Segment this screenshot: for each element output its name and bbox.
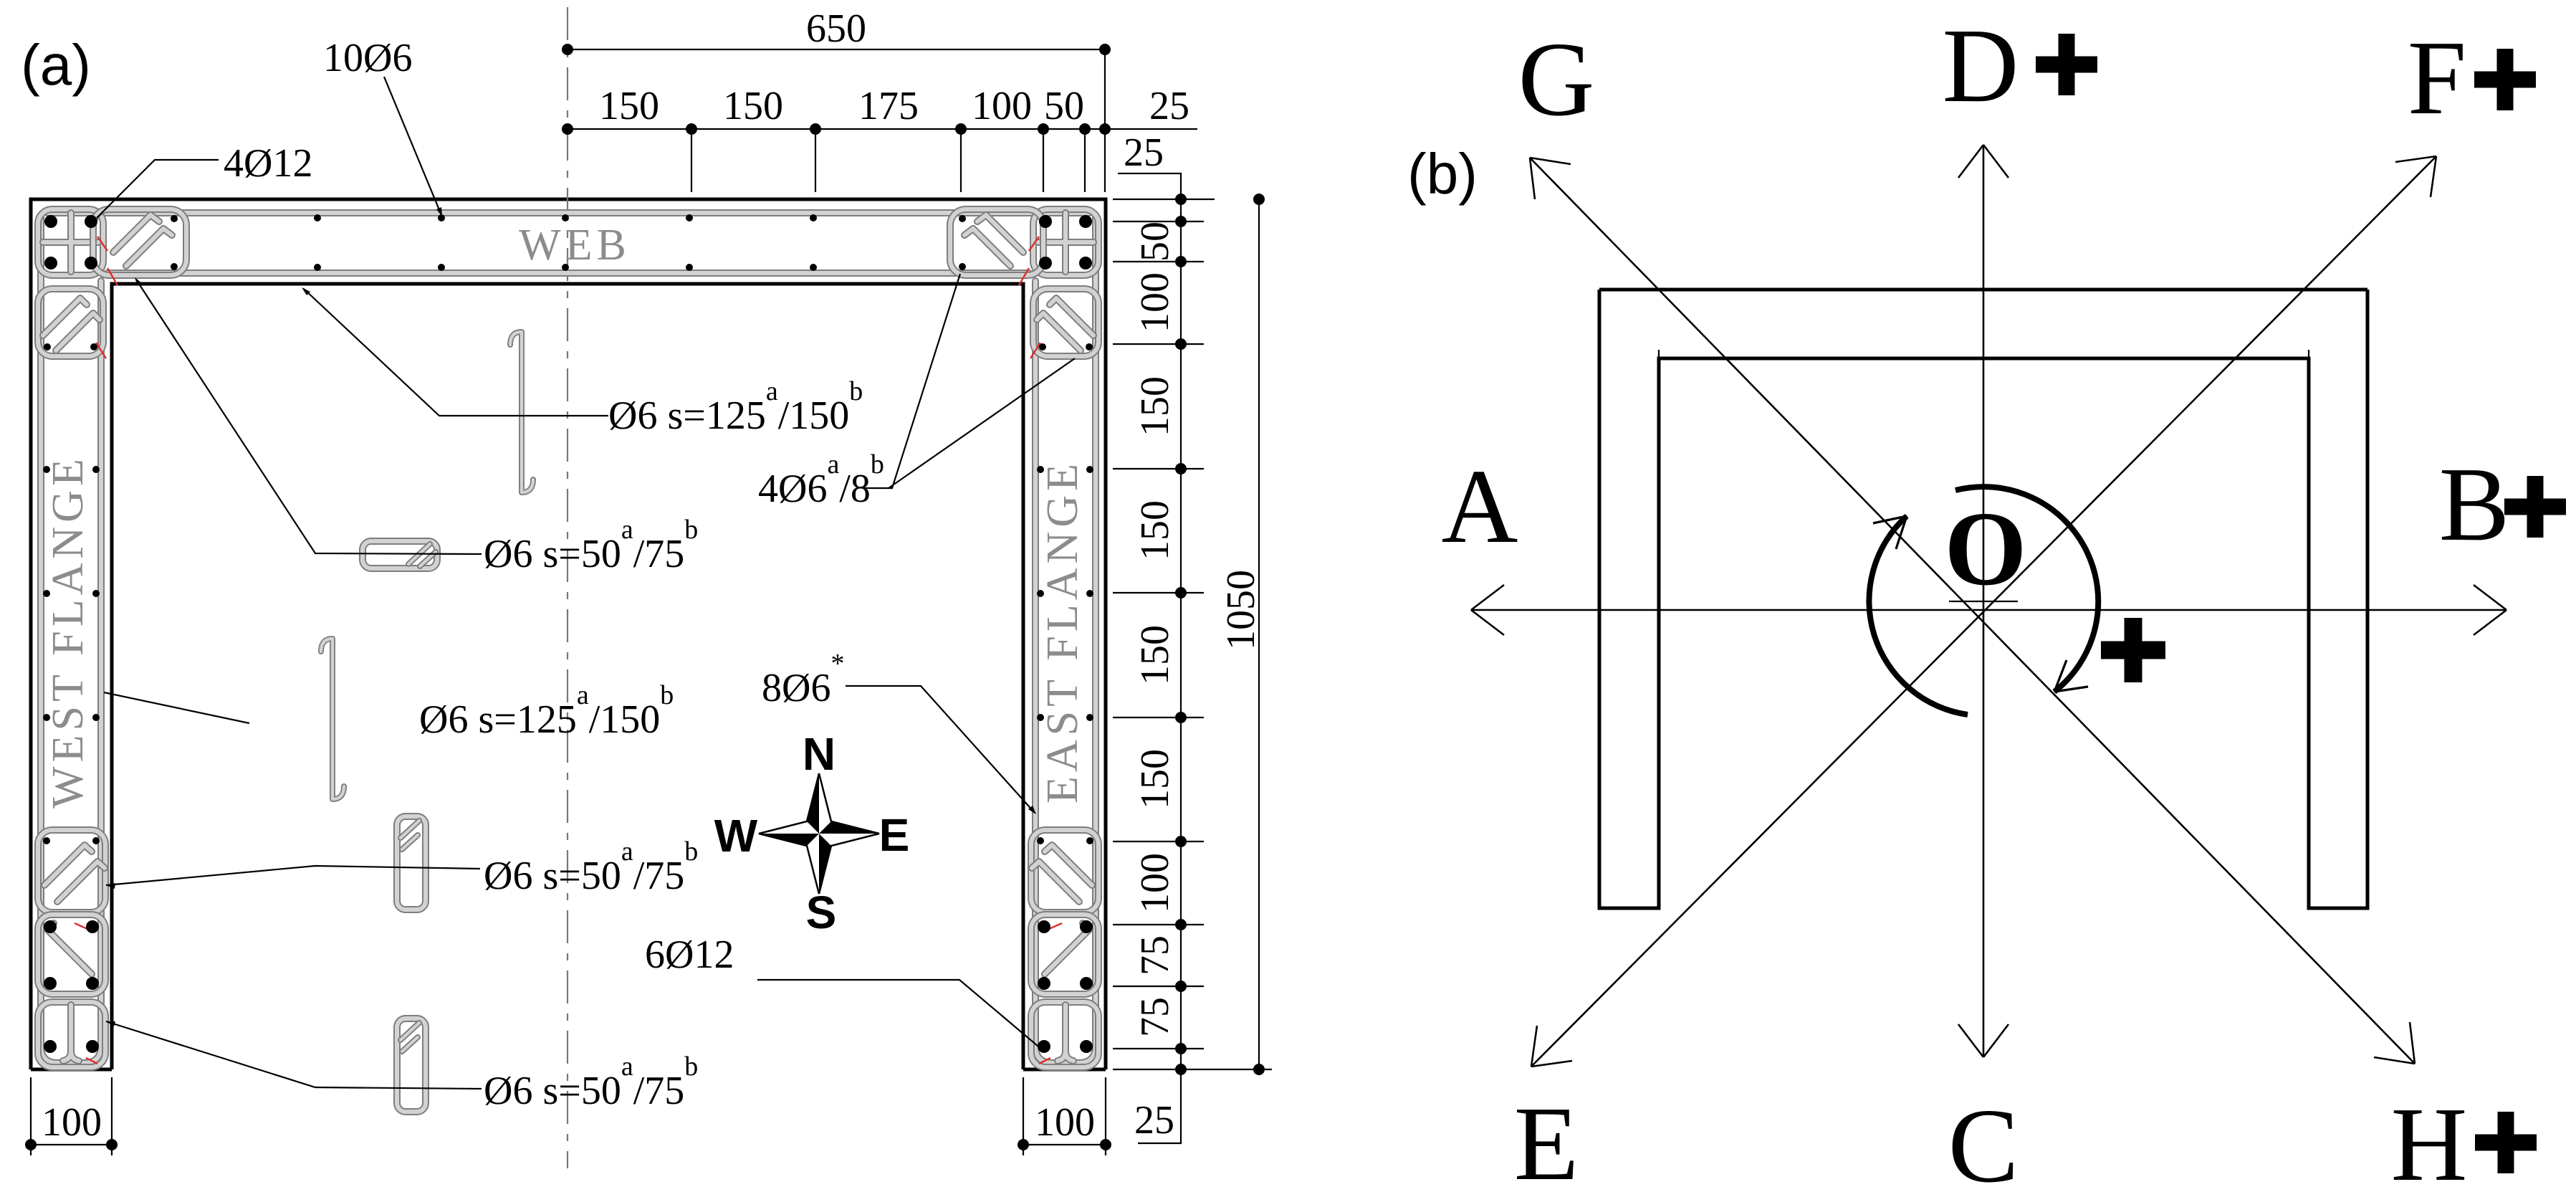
svg-text:H: H [2391,1086,2468,1197]
svg-text:100: 100 [42,1100,102,1145]
web hook-hoop small dots [171,215,178,222]
svg-text:100: 100 [1133,853,1177,913]
svg-text:150: 150 [1133,749,1177,809]
web longitudinal bar dots (10Ø6) [314,214,321,221]
svg-text:150: 150 [1133,500,1177,561]
svg-text:D: D [1943,7,2019,125]
axis G-H (diagonal) [1530,158,2415,1064]
rotation arc (positive torsion) [1955,487,2098,692]
dimension 650 line [568,49,1105,50]
origin tick under O [1949,601,2018,602]
svg-text:N: N [803,728,835,780]
svg-text:50: 50 [1044,84,1084,128]
svg-text:150: 150 [1133,625,1177,685]
svg-text:150: 150 [1133,376,1177,437]
plus sign (rotation) [2101,618,2165,682]
svg-text:25: 25 [1149,84,1189,128]
svg-text:WEST FLANGE: WEST FLANGE [44,454,92,809]
svg-text:100: 100 [1133,272,1177,333]
west flange rebar [38,209,186,1067]
svg-text:(a): (a) [21,33,91,97]
svg-text:650: 650 [806,6,866,51]
svg-text:1050: 1050 [1219,570,1263,650]
centerline (axis of symmetry) [567,7,568,1168]
svg-text:C: C [1948,1087,2019,1197]
wall inner outline [112,284,1023,1069]
stirrup sample rect 1 (horizontal) [363,541,437,568]
U-shaped wall outline (plan) [1599,290,2367,908]
bottom 25 bracket right [1138,1069,1181,1143]
overall 1050 dimension [1113,1069,1272,1070]
flange cage B 4Ø12 dots [44,920,57,933]
wall outer outline [31,199,1106,1069]
stirrup sample rect 3 (vertical) [397,1019,426,1112]
svg-text:S: S [806,887,837,938]
corner cage 4Ø12 dots west [44,215,57,228]
svg-text:E: E [879,809,910,861]
svg-text:50: 50 [1133,221,1177,262]
right dimension chain [1180,199,1182,1069]
bottom dimension 100 west [31,1077,112,1155]
svg-text:150: 150 [599,84,659,128]
svg-text:75: 75 [1133,997,1177,1037]
web hoop bottom bar [107,270,1029,277]
svg-text:A: A [1442,448,1518,566]
svg-text:25: 25 [1124,130,1164,175]
svg-text:100: 100 [1035,1100,1095,1145]
svg-text:F: F [2408,19,2466,137]
svg-text:W: W [714,810,758,862]
svg-text:WEB: WEB [519,221,631,270]
red hook marks [97,237,107,251]
east flange rebar (mirror) [950,209,1098,1067]
cross-tie sample 2 [321,639,344,799]
svg-text:25: 25 [1134,1098,1174,1143]
compass rose [759,773,879,894]
bottom dimension 100 east [1023,1077,1106,1155]
cross-tie sample 1 [510,332,533,492]
web inner corner nubs [1659,350,2309,358]
corner cage 4Ø12 dots east [1039,215,1052,228]
svg-text:175: 175 [858,84,919,128]
svg-text:150: 150 [723,84,783,128]
flange top hook-hoop dots [44,343,51,350]
svg-text:G: G [1518,21,1595,138]
axis E-F (diagonal) [1531,156,2436,1067]
flange bottom cage 2Ø12 dots (6Ø12 group) [44,1040,57,1053]
svg-text:(b): (b) [1407,142,1478,206]
svg-text:B: B [2439,446,2510,563]
flange mid bar dots (8Ø6) [43,466,50,473]
svg-text:E: E [1514,1085,1579,1197]
web hoop top bar [47,209,1089,216]
svg-text:10Ø6: 10Ø6 [323,36,412,80]
svg-text:O: O [1944,490,2026,608]
stirrup sample rect 2 (vertical) [397,816,426,910]
svg-text:100: 100 [972,84,1032,128]
svg-text:75: 75 [1133,935,1177,976]
top dimension chain 150/150/175/100/50/25 [568,128,1197,130]
svg-text:EAST FLANGE: EAST FLANGE [1038,459,1087,803]
axis C-D (vertical) [1983,145,1985,1057]
svg-text:6Ø12: 6Ø12 [645,933,734,977]
axis A-B (horizontal) [1471,609,2506,611]
svg-text:4Ø12: 4Ø12 [224,141,312,186]
